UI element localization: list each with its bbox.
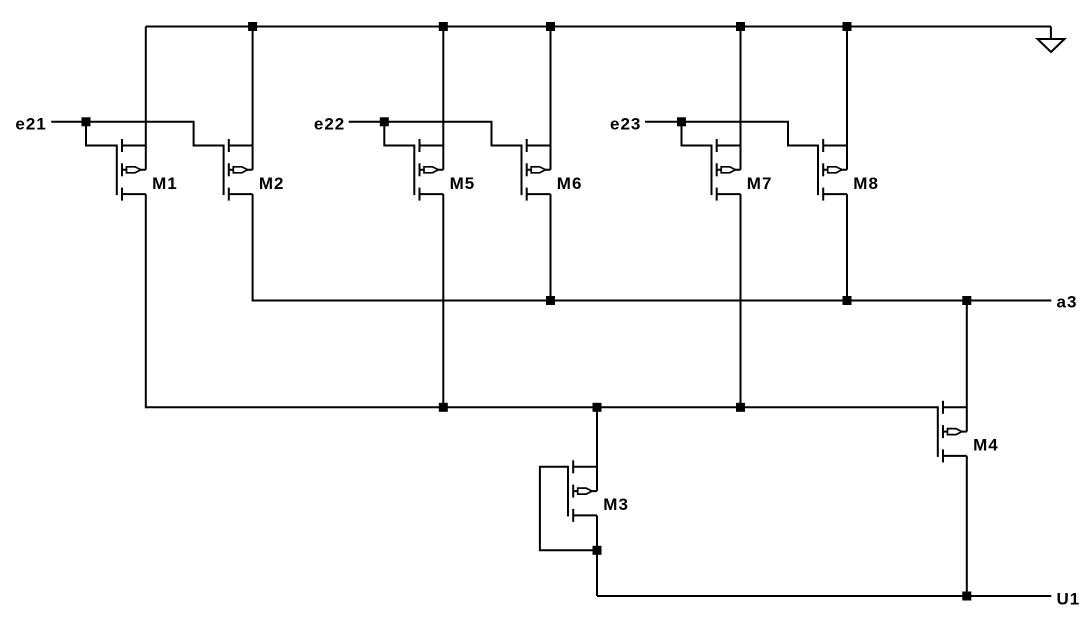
svg-text:M4: M4 bbox=[973, 436, 999, 455]
junction M3 gate/source bbox=[593, 546, 602, 555]
wire net e22 branch to M5 gate bbox=[384, 122, 414, 146]
wire M2 drain to rail bbox=[252, 27, 254, 170]
wire net e21 branch to M1 gate bbox=[86, 122, 117, 146]
svg-text:M8: M8 bbox=[853, 174, 879, 193]
transistor M3 bbox=[568, 460, 597, 522]
wire M4 drain up to a3 bus bbox=[966, 301, 968, 432]
svg-text:U1: U1 bbox=[1057, 590, 1081, 609]
svg-text:a3: a3 bbox=[1057, 292, 1078, 311]
transistor M2 bbox=[224, 139, 253, 201]
transistor M1 bbox=[117, 139, 146, 201]
wire net e23 branch to M7 gate bbox=[682, 122, 712, 146]
wire M3 drain up to tail bus bbox=[596, 407, 598, 491]
junction rail/M2 bbox=[248, 22, 257, 31]
transistor M7 bbox=[712, 139, 741, 201]
wire M4 source down to U1 bus bbox=[966, 456, 968, 597]
junction rail/M8 bbox=[843, 22, 852, 31]
wire M2 source down to a3 bus bbox=[252, 194, 254, 301]
svg-text:e21: e21 bbox=[15, 114, 46, 133]
wire M1 source down to tail bus bbox=[145, 194, 147, 408]
svg-text:e22: e22 bbox=[314, 114, 345, 133]
svg-text:M1: M1 bbox=[152, 174, 178, 193]
junction tail/M7 bbox=[736, 403, 745, 412]
svg-text:M6: M6 bbox=[557, 174, 583, 193]
wire tail bus to M4 gate bbox=[146, 406, 938, 408]
transistor M8 bbox=[818, 139, 847, 201]
transistor M4 bbox=[938, 401, 967, 463]
wire M7 source down to tail bus bbox=[740, 194, 742, 408]
power supply symbol (open down-arrow) bbox=[1038, 27, 1065, 53]
junction rail/M6 bbox=[546, 22, 555, 31]
wire net e23 to M8 gate bbox=[645, 122, 818, 146]
wire M8 drain to rail bbox=[846, 27, 848, 170]
wire M5 source down to tail bus bbox=[442, 194, 444, 408]
junction e22 bbox=[380, 117, 389, 126]
wire net e22 to M6 gate bbox=[349, 122, 522, 146]
wire net U1 bus bbox=[597, 595, 1051, 597]
wire VDD top rail bbox=[146, 26, 1051, 28]
svg-text:M7: M7 bbox=[747, 174, 773, 193]
wire M1 drain to rail bbox=[145, 27, 147, 170]
junction tail/M5 bbox=[439, 403, 448, 412]
junction a3/M4 bbox=[962, 296, 971, 305]
transistor M5 bbox=[414, 139, 443, 201]
svg-text:M2: M2 bbox=[259, 174, 285, 193]
wire M8 source down to a3 bus bbox=[846, 194, 848, 301]
junction e23 bbox=[677, 117, 686, 126]
svg-text:e23: e23 bbox=[610, 114, 641, 133]
wire M3 source down to U1 bus bbox=[596, 515, 598, 596]
wire M6 drain to rail bbox=[550, 27, 552, 170]
junction rail/M7 bbox=[736, 22, 745, 31]
wire M6 source down to a3 bus bbox=[550, 194, 552, 301]
junction a3/M6 bbox=[546, 296, 555, 305]
wire M7 drain to rail bbox=[740, 27, 742, 170]
junction a3/M8 bbox=[843, 296, 852, 305]
wire M3 gate loop to source bbox=[540, 467, 597, 551]
svg-text:M5: M5 bbox=[450, 174, 476, 193]
wire net a3 bus bbox=[253, 300, 1052, 302]
junction tail/M3 bbox=[593, 403, 602, 412]
wire M5 drain to rail bbox=[442, 27, 444, 170]
junction rail/M5 bbox=[439, 22, 448, 31]
svg-text:M3: M3 bbox=[603, 495, 629, 514]
junction U1/M4 bbox=[962, 592, 971, 601]
transistor M6 bbox=[522, 139, 551, 201]
wire net e21 to M2 gate bbox=[51, 122, 223, 146]
junction e21 bbox=[82, 117, 91, 126]
